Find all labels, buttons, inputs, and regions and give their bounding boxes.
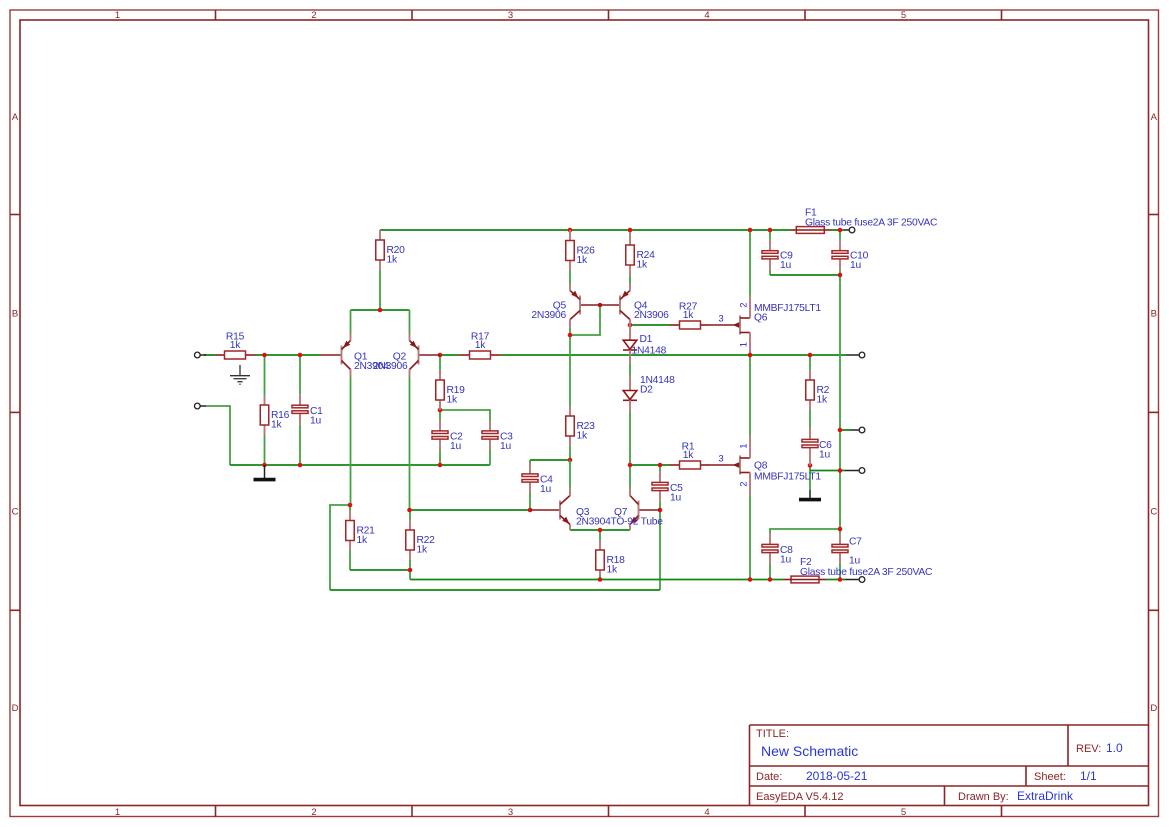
svg-text:D: D — [12, 703, 19, 714]
wire C8 top link — [770, 529, 840, 534]
svg-text:3: 3 — [508, 10, 513, 21]
svg-text:1k: 1k — [817, 395, 828, 406]
wire Q7 base node down to L2 — [659, 510, 661, 590]
svg-text:2: 2 — [311, 10, 316, 21]
wire R22 top green — [409, 510, 411, 520]
wire C9 to C10 bottom link — [770, 274, 840, 276]
wire R23 bottom — [569, 446, 571, 460]
transistor Q5 — [531, 284, 600, 329]
TITLEBLOCK — [750, 725, 1149, 806]
jfet Q8 — [710, 435, 821, 495]
wire C7 bottom — [839, 564, 841, 580]
svg-text:1: 1 — [115, 10, 120, 21]
wire R24 bottom — [629, 275, 631, 284]
capacitor C8 — [762, 534, 793, 566]
wire line down to Q8 pin1 — [749, 355, 751, 435]
svg-text:Q8: Q8 — [754, 461, 768, 472]
capacitor C6 — [802, 429, 832, 466]
wire C7 top stub — [839, 529, 841, 534]
svg-text:1k: 1k — [607, 565, 618, 576]
column tick marks — [216, 10, 1002, 817]
svg-text:2018-05-21: 2018-05-21 — [806, 769, 868, 783]
junction R16 top — [262, 353, 267, 358]
wire output mid — [810, 470, 845, 472]
resistor R15 — [215, 332, 255, 359]
wire R21 to R22 bottom — [350, 569, 410, 571]
junction F1 C10 — [838, 228, 843, 233]
junction R16 bus — [262, 463, 267, 468]
capacitor C3 — [482, 421, 513, 453]
svg-text:1u: 1u — [670, 493, 681, 504]
svg-text:D1: D1 — [640, 334, 653, 345]
wire R18 top — [599, 530, 601, 540]
junction C9 rail — [768, 228, 773, 233]
wire R16 top — [264, 355, 266, 395]
wire fuse F1 to node — [831, 229, 844, 231]
svg-text:TITLE:: TITLE: — [756, 728, 789, 740]
svg-text:Sheet:: Sheet: — [1034, 771, 1066, 783]
junction emitters R18 — [598, 528, 603, 533]
junction R19 bottom — [438, 408, 443, 413]
junction C1 bus — [298, 463, 303, 468]
wire Q4 collector node to R27 — [630, 324, 670, 326]
wire Q6 source to line — [749, 353, 751, 356]
wire D1 D2 link — [629, 364, 631, 376]
capacitor C9 — [762, 240, 793, 271]
svg-text:Glass tube fuse2A 3F 250VAC: Glass tube fuse2A 3F 250VAC — [800, 567, 933, 578]
row labels left/right — [12, 112, 1158, 714]
junction Q8 L1 — [748, 577, 753, 582]
ground bar left — [254, 465, 276, 480]
capacitor C1 — [292, 394, 323, 426]
wire R19 top — [439, 355, 441, 370]
transistor Q4 — [600, 284, 669, 326]
wire input port 1 to R15 — [204, 354, 215, 356]
svg-text:1u: 1u — [850, 260, 861, 271]
wire input port 2 — [206, 406, 230, 465]
junction R20 emitter rail — [378, 308, 383, 313]
svg-text:3: 3 — [718, 454, 723, 464]
wire R16 bottom — [264, 435, 266, 465]
wire R21 node left leg — [330, 505, 350, 590]
svg-text:Q6: Q6 — [754, 313, 768, 324]
wire top supply rail — [380, 229, 791, 231]
wire R21 top green — [349, 505, 351, 511]
junction C4 Q3 base — [528, 508, 533, 513]
junction Q2 base R19 R17 — [438, 353, 443, 358]
wire Q3 Q7 emitter link — [570, 529, 630, 531]
wire C2 top — [439, 410, 441, 421]
junction R2 top — [808, 353, 813, 358]
wire Q1 collector drop — [350, 377, 352, 505]
resistor R23 — [566, 406, 595, 446]
svg-text:ExtraDrink: ExtraDrink — [1017, 789, 1074, 803]
svg-text:5: 5 — [901, 807, 906, 818]
capacitor C7 — [832, 534, 862, 567]
junction R18 L1 — [598, 577, 603, 582]
resistor R20 — [376, 230, 405, 271]
svg-text:1: 1 — [115, 807, 120, 818]
svg-text:2N3906: 2N3906 — [634, 310, 669, 321]
junction C8 L1 — [768, 577, 773, 582]
wire C2 bottom — [439, 450, 441, 466]
port output main — [846, 352, 865, 358]
wire C4 bottom — [529, 493, 531, 511]
resistor R18 — [596, 540, 625, 576]
svg-text:1u: 1u — [310, 416, 321, 427]
wire ground bus — [230, 464, 490, 466]
wire R19 bottom node to C3 — [440, 410, 490, 421]
svg-text:4: 4 — [704, 10, 709, 21]
wire R2 top — [809, 355, 811, 370]
wire R21 bottom — [349, 551, 351, 571]
svg-text:1k: 1k — [683, 450, 694, 461]
wire C5 bottom — [659, 502, 661, 511]
junction C7 top — [838, 527, 843, 532]
svg-text:2N3906: 2N3906 — [373, 361, 408, 372]
capacitor C4 — [522, 464, 553, 496]
wire L2 lower bus — [330, 589, 660, 591]
wire Q1 Q2 emitter rail — [351, 309, 410, 311]
port input 2 — [194, 403, 206, 409]
svg-text:2N3906: 2N3906 — [531, 310, 566, 321]
transistor Q1 — [320, 333, 389, 377]
wire Q2 emitter drop — [409, 310, 411, 333]
jfet Q6 — [710, 297, 821, 353]
capacitor C5 — [652, 472, 683, 504]
svg-text:A: A — [12, 112, 19, 123]
wire right column x840 — [839, 275, 841, 529]
svg-text:EasyEDA V5.4.12: EasyEDA V5.4.12 — [756, 791, 843, 803]
svg-text:D: D — [1150, 703, 1157, 714]
svg-text:1k: 1k — [637, 260, 648, 271]
junction Q6 source — [748, 353, 753, 358]
fuse F2 — [785, 557, 933, 583]
wire Q2 collector to Q3 base — [410, 509, 531, 511]
wire R18 bottom — [599, 575, 601, 580]
junction Q4 collector D1 — [628, 323, 633, 328]
svg-text:4: 4 — [704, 807, 709, 818]
svg-text:1: 1 — [739, 443, 749, 448]
junction C9 C10 bottom — [838, 273, 843, 278]
wire F2 right — [826, 579, 846, 581]
junction Q7 base C5 — [658, 508, 663, 513]
transistor Q7 — [611, 488, 664, 530]
resistor R2 — [806, 370, 830, 410]
svg-text:1k: 1k — [417, 545, 428, 556]
svg-text:1u: 1u — [450, 441, 461, 452]
junction Q7 collector node — [628, 463, 633, 468]
svg-text:MMBFJ175LT1: MMBFJ175LT1 — [754, 472, 821, 483]
row tick marks — [10, 215, 1159, 611]
svg-text:1u: 1u — [849, 556, 860, 567]
wire R15 to Q1 base — [255, 354, 321, 356]
wire C10 bottom — [839, 270, 841, 275]
svg-text:3: 3 — [508, 807, 513, 818]
resistor R19 — [436, 370, 465, 410]
port output F2 — [845, 577, 865, 583]
wire Q3 collector column — [569, 460, 571, 488]
junction C6 bottom — [808, 463, 813, 468]
wire Q8 pin2 down to L1 — [749, 495, 751, 580]
resistor R26 — [566, 230, 595, 271]
svg-text:1u: 1u — [780, 555, 791, 566]
resistor R27 — [670, 302, 711, 329]
wire L1 lower bus — [410, 579, 785, 581]
svg-text:1u: 1u — [540, 484, 551, 495]
wire Q5 base-collector tie — [570, 305, 600, 335]
junction C1 top — [298, 353, 303, 358]
port input 1 — [194, 352, 206, 358]
transistor Q2 — [373, 333, 440, 377]
column labels top — [115, 10, 906, 818]
ground earth near R15 — [230, 365, 250, 384]
svg-text:B: B — [12, 309, 18, 320]
ground bar right — [799, 490, 821, 500]
svg-text:2N3904: 2N3904 — [576, 517, 611, 528]
junction R26 rail — [568, 228, 573, 233]
svg-text:1k: 1k — [357, 535, 368, 546]
svg-text:1.0: 1.0 — [1106, 741, 1123, 755]
wire Q2 collector drop — [409, 377, 411, 510]
svg-text:1: 1 — [739, 342, 749, 347]
resistor R1 — [670, 442, 711, 469]
wire R2 to C6 — [809, 410, 811, 429]
svg-text:A: A — [1151, 112, 1158, 123]
diode D1 — [623, 325, 667, 364]
junction Q6 rail — [748, 228, 753, 233]
junction C7 F2 — [838, 577, 843, 582]
svg-text:2: 2 — [739, 481, 749, 486]
junction R21 top — [348, 503, 353, 508]
svg-text:1k: 1k — [447, 395, 458, 406]
svg-text:REV:: REV: — [1076, 743, 1101, 755]
wire C10 top — [839, 230, 841, 240]
wire D2 to Q7 collector — [629, 412, 631, 488]
wire C9 bottom — [769, 270, 771, 275]
wire Q5 collector to tie — [569, 328, 571, 335]
resistor R24 — [626, 232, 655, 275]
svg-text:2: 2 — [739, 302, 749, 307]
diode D2 — [623, 375, 675, 412]
wire R17 to output line — [501, 354, 847, 356]
capacitor C10 — [832, 240, 869, 271]
svg-text:1N4148: 1N4148 — [632, 346, 667, 357]
junction output top — [838, 428, 843, 433]
resistor R22 — [406, 520, 435, 560]
wire C1 top — [299, 355, 301, 394]
wire R23 node to C4 — [530, 459, 570, 461]
svg-text:1k: 1k — [577, 431, 588, 442]
wire R26 bottom — [569, 271, 571, 284]
junction R23 C4 — [568, 458, 573, 463]
svg-text:1k: 1k — [577, 255, 588, 266]
svg-text:5: 5 — [901, 10, 906, 21]
port output mid — [845, 468, 865, 474]
wire R20 bottom — [379, 271, 381, 311]
svg-text:C: C — [12, 507, 19, 518]
port output top — [850, 427, 865, 433]
svg-text:3: 3 — [718, 314, 723, 324]
wire R22 bottom to L1 — [409, 560, 411, 580]
wire C5 top — [659, 465, 661, 472]
wire main node to R17 — [440, 354, 460, 356]
wire C8 bottom — [769, 564, 771, 580]
svg-text:C: C — [1150, 507, 1157, 518]
port output F1 — [844, 227, 855, 233]
wire Q1 emitter drop — [350, 310, 352, 333]
svg-text:New Schematic: New Schematic — [761, 743, 858, 759]
resistor R16 — [260, 395, 289, 435]
svg-text:1u: 1u — [780, 260, 791, 271]
svg-text:B: B — [1151, 309, 1157, 320]
wire C9 top — [769, 230, 771, 240]
svg-text:1u: 1u — [819, 450, 830, 461]
svg-text:TO-92 Tube: TO-92 Tube — [611, 517, 664, 528]
svg-text:2: 2 — [311, 807, 316, 818]
svg-text:Date:: Date: — [756, 771, 782, 783]
svg-text:1k: 1k — [230, 340, 241, 351]
resistor R17 — [460, 332, 501, 359]
svg-text:C7: C7 — [849, 537, 862, 548]
transistor Q3 — [530, 488, 611, 530]
junction C5 top — [658, 463, 663, 468]
wire Q5 collector to R23 — [569, 335, 571, 406]
resistor R21 — [346, 511, 375, 551]
junction output mid — [838, 468, 843, 473]
wire node to C5 and R1 — [630, 464, 670, 466]
wire C4 top — [529, 460, 531, 464]
svg-text:1k: 1k — [271, 420, 282, 431]
wire C1 bottom — [299, 424, 301, 465]
junction Q5 Q4 bases — [598, 303, 603, 308]
svg-text:1k: 1k — [387, 255, 398, 266]
junction R22 R21 bottom — [408, 568, 413, 573]
svg-text:1k: 1k — [475, 340, 486, 351]
svg-text:1u: 1u — [500, 441, 511, 452]
svg-text:D2: D2 — [640, 385, 653, 396]
junction C2 bus — [438, 463, 443, 468]
junction R22 top — [407, 508, 412, 513]
wire C3 bottom — [489, 450, 491, 466]
svg-text:1k: 1k — [683, 310, 694, 321]
wire Q6 drain from rail — [749, 230, 751, 297]
wire C6 node to ground — [809, 465, 811, 490]
capacitor C2 — [432, 421, 463, 453]
svg-text:Drawn By:: Drawn By: — [958, 791, 1009, 803]
fuse F1 — [791, 208, 938, 234]
wire output top stub — [840, 429, 850, 431]
junction Q5 collector tie — [568, 333, 573, 338]
junction R24 rail — [628, 228, 633, 233]
svg-text:1/1: 1/1 — [1080, 769, 1097, 783]
svg-text:Glass tube fuse2A 3F 250VAC: Glass tube fuse2A 3F 250VAC — [805, 218, 938, 229]
